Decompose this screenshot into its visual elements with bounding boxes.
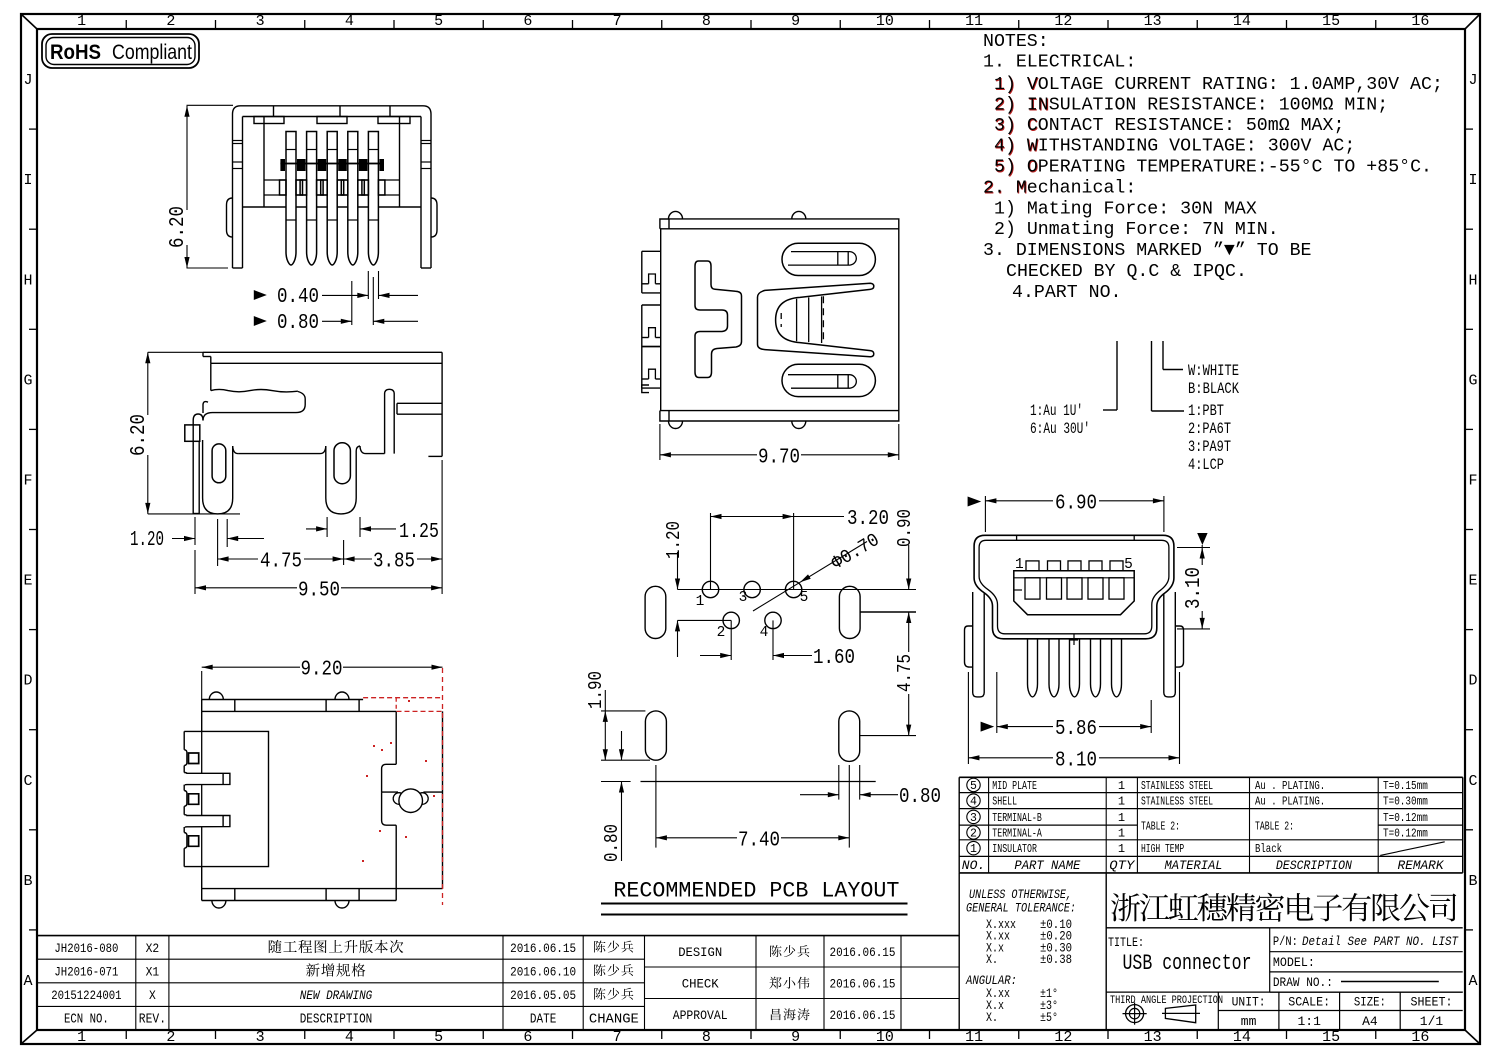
- bottom view: comb left profile: [184, 731, 230, 866]
- svg-text:NEW DRAWING: NEW DRAWING: [300, 988, 373, 1003]
- svg-text:1.20: 1.20: [130, 529, 164, 552]
- side view: leg 1 oval hole: [212, 444, 226, 483]
- svg-text:A: A: [23, 973, 32, 990]
- svg-text:6:Au 30U': 6:Au 30U': [1030, 420, 1090, 438]
- svg-text:5: 5: [970, 780, 977, 793]
- dim 5.86: [981, 722, 995, 732]
- svg-text:4.75: 4.75: [894, 654, 916, 692]
- company name (Zhejiang Hongsui Precision Electronics Co., Ltd.): [1111, 893, 1456, 922]
- svg-text:9.50: 9.50: [298, 579, 340, 602]
- side view: leg 2 oval hole: [334, 443, 350, 484]
- parts table row texts: [992, 779, 1428, 856]
- pcb: long base line: [641, 781, 876, 783]
- svg-text:11: 11: [965, 1029, 983, 1046]
- svg-text:STAINLESS STEEL: STAINLESS STEEL: [1141, 795, 1213, 809]
- svg-text:3.20: 3.20: [847, 508, 889, 531]
- svg-text:H: H: [23, 272, 32, 289]
- tolerance box border: [958, 873, 960, 1030]
- side view: crimp wavy finger: [211, 389, 298, 391]
- svg-text:3: 3: [256, 1029, 265, 1046]
- front view: mid band lines: [264, 179, 400, 181]
- svg-text:5.86: 5.86: [1055, 718, 1097, 741]
- dim phi0.70 leader: [753, 582, 800, 611]
- svg-text:B:BLACK: B:BLACK: [1188, 380, 1240, 398]
- dim 7.40: [655, 765, 657, 848]
- revision table texts: [51, 941, 639, 1028]
- svg-text:8: 8: [702, 1029, 711, 1046]
- pcb: hole 1: [702, 581, 718, 597]
- svg-text:H: H: [1468, 272, 1477, 289]
- svg-text:6: 6: [523, 1029, 532, 1046]
- svg-text:THIRD ANGLE PROJECTION: THIRD ANGLE PROJECTION: [1110, 995, 1223, 1007]
- svg-text:2: 2: [166, 1029, 175, 1046]
- top view: band bumps: [669, 211, 683, 219]
- side view: shell top: [203, 351, 442, 353]
- bottom view: solder hole circle: [399, 789, 423, 813]
- svg-text:2: 2: [970, 827, 977, 840]
- pcb: upper slot right: [839, 586, 860, 638]
- svg-text:DATE: DATE: [530, 1012, 556, 1028]
- svg-text:0.80: 0.80: [601, 824, 623, 862]
- svg-text:1/1: 1/1: [1420, 1014, 1444, 1029]
- svg-text:9: 9: [791, 13, 800, 30]
- dim 4.75: [908, 612, 910, 652]
- pcb: upper slot left: [645, 586, 666, 638]
- svg-text:RECOMMENDED PCB LAYOUT: RECOMMENDED PCB LAYOUT: [613, 879, 899, 904]
- svg-text:Black: Black: [1255, 842, 1282, 856]
- svg-text:ECN NO.: ECN NO.: [64, 1012, 109, 1028]
- svg-text:3.10: 3.10: [1183, 567, 1206, 609]
- face view: leg ears: [965, 626, 973, 667]
- dim 6.90: [968, 497, 982, 507]
- svg-text:8: 8: [702, 13, 711, 30]
- top view: V-clip seat lines: [796, 299, 798, 341]
- svg-text:5) OPERATING TEMPERATURE:-55°C: 5) OPERATING TEMPERATURE:-55°C TO +85°C.: [994, 157, 1432, 178]
- svg-text:STAINLESS STEEL: STAINLESS STEEL: [1141, 779, 1213, 793]
- svg-text:9.70: 9.70: [758, 446, 800, 469]
- dim 3.10: [1177, 547, 1210, 549]
- svg-text:3:PA9T: 3:PA9T: [1188, 438, 1231, 456]
- svg-text:4: 4: [345, 1029, 354, 1046]
- dim 0.40 (pin width): [367, 271, 369, 299]
- svg-text:16: 16: [1411, 1029, 1429, 1046]
- inspection triangle for 0.40: [254, 290, 267, 300]
- dim 9.20: [201, 671, 203, 700]
- bottom view: right edge: [442, 711, 444, 888]
- company name cell: [1106, 927, 1463, 929]
- svg-text:2) Unmating Force: 7N MIN.: 2) Unmating Force: 7N MIN.: [994, 219, 1279, 240]
- svg-text:4: 4: [970, 796, 977, 809]
- top view: center V-clip: [758, 283, 874, 357]
- side view: right edge: [441, 352, 443, 456]
- svg-text:SHEET:: SHEET:: [1411, 995, 1453, 1010]
- svg-text:DESIGN: DESIGN: [678, 946, 722, 960]
- svg-text:X: X: [149, 988, 156, 1003]
- svg-text:15: 15: [1322, 1029, 1340, 1046]
- svg-text:3: 3: [256, 13, 265, 30]
- svg-text:16: 16: [1411, 13, 1429, 30]
- svg-text:10: 10: [876, 13, 894, 30]
- svg-text:1: 1: [1118, 826, 1125, 840]
- svg-text:Au . PLATING.: Au . PLATING.: [1255, 795, 1325, 809]
- MODEL row: [1270, 971, 1463, 973]
- front view: contact retention black band: [280, 159, 384, 171]
- svg-text:4: 4: [345, 13, 354, 30]
- svg-text:I: I: [23, 172, 32, 189]
- front view: shell outline: [233, 106, 432, 268]
- svg-text:J: J: [1468, 72, 1477, 89]
- pcb: hole 4: [765, 612, 781, 628]
- svg-text:1:1: 1:1: [1297, 1014, 1321, 1029]
- svg-text:T=0.12mm: T=0.12mm: [1383, 826, 1428, 840]
- svg-text:3: 3: [970, 812, 977, 825]
- top view: left comb teeth: [642, 251, 661, 392]
- svg-text:1. ELECTRICAL:: 1. ELECTRICAL:: [983, 52, 1136, 73]
- svg-text:REMARK: REMARK: [1398, 858, 1445, 873]
- tolerance texts: [965, 888, 1076, 1025]
- revision chinese descriptions: [269, 940, 403, 953]
- svg-text:SCALE:: SCALE:: [1288, 995, 1330, 1010]
- side view: rear contact leg: [385, 389, 395, 453]
- P/N row: [1270, 951, 1463, 953]
- bottom view: red revision dashes: [362, 668, 443, 905]
- svg-text:CHECKED BY Q.C & IPQC.: CHECKED BY Q.C & IPQC.: [1006, 261, 1247, 282]
- face view: 5 pins below: [1028, 639, 1122, 697]
- svg-text:1.20: 1.20: [663, 521, 685, 559]
- svg-text:PART NAME: PART NAME: [1014, 858, 1080, 873]
- front view: inner verticals: [263, 117, 265, 208]
- svg-text:1: 1: [1118, 779, 1125, 793]
- svg-text:0.40: 0.40: [277, 286, 319, 309]
- face view: shell inner outline: [979, 540, 1169, 634]
- svg-text:JH2016-080: JH2016-080: [54, 941, 118, 956]
- bottom view: solder hole ears: [393, 793, 405, 805]
- svg-text:QTY: QTY: [1109, 858, 1135, 873]
- front view: lower band cells: [280, 180, 385, 195]
- svg-text:5: 5: [800, 590, 809, 606]
- svg-text:1:Au 1U': 1:Au 1U': [1030, 402, 1083, 420]
- svg-text:5: 5: [434, 13, 443, 30]
- svg-text:Compliant: Compliant: [112, 41, 192, 64]
- corner diagonals: [21, 14, 37, 29]
- revision change names: [594, 941, 633, 953]
- svg-text:1.25: 1.25: [399, 521, 439, 544]
- svg-text:HIGH TEMP: HIGH TEMP: [1141, 842, 1184, 856]
- pcb title underlines: [601, 903, 908, 905]
- svg-text:1) Mating Force: 30N MAX: 1) Mating Force: 30N MAX: [994, 199, 1257, 220]
- bottom view: bottom bumps: [212, 901, 226, 909]
- svg-text:1) VOLTAGE CURRENT RATING: 1.0: 1) VOLTAGE CURRENT RATING: 1.0AMP,30V AC…: [994, 74, 1443, 95]
- svg-text:7: 7: [613, 1029, 622, 1046]
- svg-text:TABLE 2:: TABLE 2:: [1255, 820, 1294, 834]
- svg-text:E: E: [1468, 573, 1477, 590]
- svg-text:13: 13: [1144, 13, 1162, 30]
- svg-text:7.40: 7.40: [738, 829, 780, 852]
- svg-text:13: 13: [1144, 1029, 1162, 1046]
- svg-text:T=0.12mm: T=0.12mm: [1383, 811, 1428, 825]
- front view: top edge notches: [273, 106, 275, 117]
- svg-text:A: A: [1468, 973, 1477, 990]
- part-no detail tree lines: [1116, 341, 1118, 410]
- svg-text:1: 1: [1118, 811, 1125, 825]
- svg-text:MODEL:: MODEL:: [1273, 956, 1315, 970]
- approval names: [770, 945, 809, 957]
- notes text block: [983, 31, 1443, 303]
- svg-text:14: 14: [1233, 13, 1251, 30]
- side view: solder tab square: [185, 425, 200, 441]
- svg-text:1:PBT: 1:PBT: [1188, 402, 1224, 420]
- pcb: lower slot left: [645, 711, 666, 760]
- svg-text:4: 4: [760, 625, 769, 641]
- svg-text:1: 1: [1118, 795, 1125, 809]
- svg-text:8.10: 8.10: [1055, 749, 1097, 772]
- svg-text:D: D: [1468, 673, 1477, 690]
- dim 6.20 (front view height): [187, 104, 234, 106]
- svg-text:X1: X1: [146, 965, 160, 980]
- front view: 5 terminal pins: [286, 132, 378, 266]
- dim 1.60: [730, 620, 732, 660]
- svg-text:1: 1: [696, 594, 705, 610]
- svg-text:1: 1: [970, 843, 977, 856]
- svg-text:7: 7: [613, 13, 622, 30]
- svg-text:0.90: 0.90: [894, 509, 916, 547]
- dim 0.80 right: [838, 765, 840, 800]
- svg-text:3. DIMENSIONS MARKED ”▼” TO BE: 3. DIMENSIONS MARKED ”▼” TO BE: [983, 240, 1312, 261]
- top view: outline: [660, 219, 899, 421]
- svg-text:C: C: [1468, 773, 1477, 790]
- pcb: hole 2: [723, 612, 739, 628]
- front view: wall notches: [233, 140, 243, 142]
- svg-text:RoHS: RoHS: [50, 41, 101, 64]
- svg-text:TERMINAL-A: TERMINAL-A: [992, 826, 1042, 840]
- svg-text:TITLE:: TITLE:: [1108, 936, 1144, 950]
- svg-text:2. Mechanical:: 2. Mechanical:: [983, 178, 1136, 199]
- svg-text:SIZE:: SIZE:: [1354, 995, 1386, 1010]
- svg-text:6.20: 6.20: [128, 414, 151, 456]
- bottom view: right profile: [395, 711, 397, 764]
- svg-text:2016.06.15: 2016.06.15: [830, 945, 896, 960]
- face view: cavity contact rows: [1025, 561, 1124, 599]
- svg-text:P/N:: P/N:: [1273, 935, 1298, 949]
- side view: leg 2: [326, 446, 360, 514]
- bottom view: comb body: [202, 711, 269, 888]
- svg-text:4.PART NO.: 4.PART NO.: [1012, 282, 1122, 303]
- svg-text:B: B: [1468, 873, 1477, 890]
- svg-text:1: 1: [1118, 842, 1125, 856]
- svg-text:Au . PLATING.: Au . PLATING.: [1255, 779, 1325, 793]
- approval table grid: [645, 936, 960, 1030]
- pcb: horizontal center lines: [678, 589, 917, 591]
- front view: side ears: [227, 198, 233, 237]
- svg-text:2:PA6T: 2:PA6T: [1188, 420, 1231, 438]
- front view: base line: [243, 206, 422, 208]
- svg-text:2016.06.15: 2016.06.15: [830, 977, 896, 992]
- pcb: lower slot right: [839, 711, 860, 762]
- svg-text:TABLE 2:: TABLE 2:: [1141, 820, 1180, 834]
- svg-text:3: 3: [739, 590, 748, 606]
- svg-text:12: 12: [1054, 13, 1072, 30]
- front view: top inner line: [243, 116, 422, 118]
- svg-text:0.80: 0.80: [899, 786, 941, 809]
- front view: hanging tabs: [254, 117, 284, 124]
- side view: front bend: [203, 413, 222, 421]
- face view: top edge ticks: [1016, 535, 1018, 540]
- svg-text:DESCRIPTION: DESCRIPTION: [1276, 858, 1352, 873]
- svg-text:G: G: [23, 372, 32, 389]
- svg-text:MATERIAL: MATERIAL: [1165, 858, 1223, 873]
- svg-text:9.20: 9.20: [301, 659, 343, 682]
- svg-text:E: E: [23, 573, 32, 590]
- svg-text:MID PLATE: MID PLATE: [992, 779, 1037, 793]
- svg-text:2) INSULATION RESISTANCE: 100M: 2) INSULATION RESISTANCE: 100MΩ MIN;: [994, 95, 1388, 116]
- bottom view: bottom band: [202, 888, 443, 890]
- svg-text:1: 1: [77, 1029, 86, 1046]
- dim 1.25: [326, 517, 328, 537]
- top view: lower spring contact: [782, 364, 875, 396]
- svg-text:4:LCP: 4:LCP: [1188, 456, 1224, 474]
- svg-text:CHANGE: CHANGE: [589, 1012, 639, 1028]
- svg-text:G: G: [1468, 372, 1477, 389]
- dim 0.80 left: [621, 731, 623, 760]
- svg-text:Detail See PART NO. LIST: Detail See PART NO. LIST: [1302, 935, 1458, 949]
- pcb: hole 5: [785, 581, 801, 597]
- bottom band of title block: [1106, 991, 1463, 993]
- parts table grid: [959, 777, 1462, 873]
- dim 4.75 / 3.85: [343, 540, 345, 565]
- svg-text:20151224001: 20151224001: [51, 988, 122, 1003]
- svg-text:USB connector: USB connector: [1123, 951, 1252, 976]
- top view: left body edge: [660, 229, 662, 411]
- svg-text:1.90: 1.90: [585, 671, 607, 709]
- parts table circled item numbers: [967, 778, 980, 856]
- svg-text:ANGULAR:: ANGULAR:: [965, 974, 1017, 988]
- svg-text:6: 6: [523, 13, 532, 30]
- svg-text:0.80: 0.80: [277, 312, 319, 335]
- bottom view: top band: [202, 699, 363, 701]
- pcb: hole 3: [744, 581, 760, 597]
- dim 9.70: [659, 424, 661, 460]
- svg-text:X.: X.: [986, 953, 998, 967]
- svg-text:2016.05.05: 2016.05.05: [510, 988, 576, 1003]
- svg-text:B: B: [23, 873, 32, 890]
- svg-text:UNIT:: UNIT:: [1232, 995, 1266, 1010]
- bottom view: comb inner edge segments: [201, 731, 203, 773]
- svg-text:DRAW NO.:: DRAW NO.:: [1273, 976, 1333, 990]
- svg-text:mm: mm: [1241, 1014, 1257, 1029]
- svg-text:CHECK: CHECK: [682, 978, 719, 992]
- svg-text:2016.06.15: 2016.06.15: [830, 1008, 896, 1023]
- bottom view: top bumps: [209, 692, 223, 700]
- svg-text:10: 10: [876, 1029, 894, 1046]
- svg-text:D: D: [23, 673, 32, 690]
- svg-text:F: F: [23, 472, 32, 489]
- svg-text:4.75: 4.75: [260, 551, 302, 574]
- face view: cavity outline: [1014, 571, 1134, 615]
- svg-text:C: C: [23, 773, 32, 790]
- svg-text:2016.06.15: 2016.06.15: [510, 941, 576, 956]
- svg-text:11: 11: [965, 13, 983, 30]
- svg-text:APPROVAL: APPROVAL: [673, 1009, 728, 1023]
- svg-text:SHELL: SHELL: [992, 795, 1017, 809]
- svg-text:I: I: [1468, 172, 1477, 189]
- DRAW NO. row: [1270, 991, 1463, 993]
- svg-text:NO.: NO.: [962, 858, 985, 873]
- svg-text:W:WHITE: W:WHITE: [1188, 362, 1239, 380]
- svg-text:GENERAL TOLERANCE:: GENERAL TOLERANCE:: [966, 902, 1076, 916]
- svg-text:±5°: ±5°: [1040, 1011, 1058, 1025]
- svg-text:5: 5: [434, 1029, 443, 1046]
- svg-text:4) WITHSTANDING VOLTAGE: 300V: 4) WITHSTANDING VOLTAGE: 300V AC;: [994, 136, 1355, 157]
- svg-text:F: F: [1468, 472, 1477, 489]
- dim 8.10: [967, 672, 969, 764]
- side view: left step to crimp: [210, 363, 212, 390]
- dim 1.90: [601, 710, 645, 712]
- svg-text:A4: A4: [1362, 1014, 1378, 1029]
- svg-text:12: 12: [1054, 1029, 1072, 1046]
- svg-text:JH2016-071: JH2016-071: [54, 965, 118, 980]
- dim 9.50: [194, 550, 196, 594]
- svg-text:1.60: 1.60: [813, 647, 855, 670]
- svg-text:REV.: REV.: [139, 1012, 166, 1028]
- svg-text:15: 15: [1322, 13, 1340, 30]
- svg-text:DESCRIPTION: DESCRIPTION: [300, 1012, 373, 1028]
- svg-text:UNLESS OTHERWISE,: UNLESS OTHERWISE,: [969, 888, 1072, 902]
- svg-text:9: 9: [791, 1029, 800, 1046]
- projection symbol frustum: [1165, 1005, 1195, 1023]
- side view: body bottom edge: [233, 446, 238, 454]
- top view: top band: [660, 228, 899, 230]
- svg-text:14: 14: [1233, 1029, 1251, 1046]
- svg-text:±0.38: ±0.38: [1040, 953, 1072, 967]
- revision table grid: [37, 936, 959, 1030]
- inspection triangle for 0.80: [254, 316, 267, 326]
- svg-text:T=0.30mm: T=0.30mm: [1383, 795, 1428, 809]
- dim 3.20: [710, 513, 712, 590]
- dim 6.20 (side view height): [148, 351, 203, 353]
- projection symbol crosshair: [1126, 1005, 1144, 1023]
- svg-text:1: 1: [1015, 557, 1024, 573]
- svg-text:2016.06.10: 2016.06.10: [510, 965, 576, 980]
- RoHS Compliant badge: [42, 34, 199, 68]
- svg-text:5: 5: [1124, 557, 1133, 573]
- face view: center tick bottom: [1073, 634, 1075, 645]
- svg-text:T=0.15mm: T=0.15mm: [1383, 779, 1428, 793]
- top view: mid-plate cutout: [695, 261, 742, 378]
- svg-text:INSULATOR: INSULATOR: [992, 842, 1037, 856]
- svg-text:1: 1: [77, 13, 86, 30]
- side view: leg 1 (front): [203, 440, 233, 514]
- svg-text:TERMINAL-B: TERMINAL-B: [992, 811, 1042, 825]
- face view: legs: [973, 592, 985, 697]
- top view: upper spring contact: [782, 243, 875, 275]
- face view: shell outer outline: [974, 535, 1174, 639]
- svg-text:NOTES:: NOTES:: [983, 31, 1049, 52]
- svg-text:6.90: 6.90: [1055, 492, 1097, 515]
- svg-text:X2: X2: [146, 941, 160, 956]
- svg-text:2: 2: [717, 625, 726, 641]
- dim 1.20: [194, 517, 196, 545]
- svg-text:3.85: 3.85: [373, 551, 415, 574]
- svg-text:J: J: [23, 72, 32, 89]
- svg-text:3) CONTACT RESISTANCE: 50mΩ MA: 3) CONTACT RESISTANCE: 50mΩ MAX;: [994, 115, 1344, 136]
- top view: bottom band: [660, 410, 899, 412]
- svg-text:2: 2: [166, 13, 175, 30]
- svg-text:X.: X.: [986, 1011, 998, 1025]
- svg-text:6.20: 6.20: [167, 206, 190, 248]
- parts table remark slash: [1380, 842, 1445, 856]
- side view: rear block: [397, 402, 442, 404]
